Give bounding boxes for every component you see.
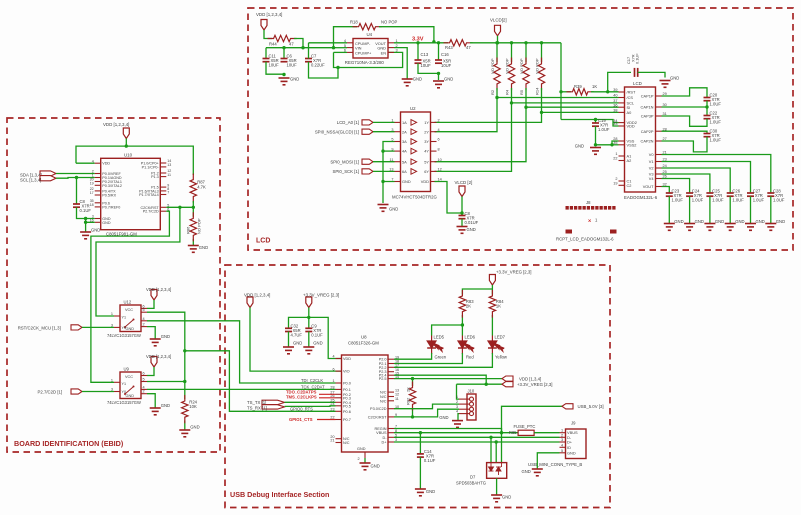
wire R84 to LED7	[491, 315, 493, 336]
capacitor C24	[686, 192, 693, 194]
D7 diode glyphs	[489, 463, 502, 475]
wire U9 output to USB P0.1	[147, 388, 336, 390]
capacitor C19	[592, 122, 599, 124]
U8 GND pin 2 to ground	[364, 452, 366, 458]
ground C26	[725, 224, 736, 231]
svg-text:1: 1	[561, 429, 563, 433]
input flag SPI0_MOSI	[362, 159, 373, 164]
power flag +3.3V_VREG (USB)	[306, 297, 312, 308]
svg-text:GND: GND	[444, 77, 453, 82]
wire rail to C6	[283, 48, 285, 59]
wire U2 unused inputs to ground	[383, 142, 395, 182]
TVS diode array D7 SPD503BAHTG	[487, 463, 507, 479]
svg-text:GND: GND	[371, 464, 380, 469]
input flag SPI0_SCK	[362, 169, 373, 174]
wire VBUS line	[394, 432, 518, 434]
svg-text:CPUMP+: CPUMP+	[355, 51, 372, 56]
svg-text:4A: 4A	[402, 149, 407, 154]
svg-text:N/C: N/C	[343, 441, 350, 445]
svg-text:GND: GND	[389, 207, 398, 212]
LCD module left pins	[619, 91, 625, 93]
svg-text:GND: GND	[674, 219, 683, 224]
svg-text:A0: A0	[627, 110, 633, 115]
svg-text:NO POP: NO POP	[504, 58, 509, 74]
connector J9 USB mini	[566, 429, 587, 459]
regulator U4 REG710NA	[353, 39, 388, 59]
wire CAP3P loop to C22 bottom	[662, 116, 708, 126]
svg-text:P0.1: P0.1	[343, 388, 351, 392]
svg-text:U8: U8	[361, 335, 367, 340]
svg-text:VLCD [2]: VLCD [2]	[455, 180, 473, 185]
svg-text:USB Debug Interface Section: USB Debug Interface Section	[230, 490, 329, 499]
USB MCU U8 C8051F326	[342, 355, 389, 452]
svg-text:NO POP: NO POP	[381, 20, 397, 25]
ground C24	[684, 224, 695, 231]
capacitor C20	[704, 97, 711, 99]
wire R24 to ground	[184, 421, 186, 430]
svg-text:3A: 3A	[402, 139, 407, 144]
junction C20/C22	[705, 105, 708, 108]
U10 left pins	[95, 162, 101, 164]
wire 3.3V rail down to /RST and VDD2	[560, 43, 562, 120]
U2 buffer triangles	[411, 120, 417, 126]
wire R44 to VIN rail	[294, 39, 303, 48]
svg-text:1.0UF: 1.0UF	[712, 198, 724, 203]
ground C23	[664, 224, 675, 231]
svg-text:1K: 1K	[592, 84, 597, 89]
svg-text:GND: GND	[190, 425, 199, 430]
resistor R14 (NO POP)	[538, 58, 544, 91]
svg-text:1.0UF: 1.0UF	[710, 120, 722, 125]
wire 3.3V to C16	[438, 43, 440, 60]
power net flag VDD [1,3,4]	[502, 376, 513, 381]
svg-text:CAP3P: CAP3P	[641, 114, 654, 119]
wire VDD to U12 VCC	[147, 300, 154, 308]
power flag VDD (U12)	[151, 290, 157, 301]
svg-text:R5: R5	[519, 89, 524, 95]
svg-text:2: 2	[143, 323, 145, 327]
svg-text:40: 40	[613, 94, 617, 98]
svg-text:10K: 10K	[189, 404, 197, 409]
svg-text:R44: R44	[269, 42, 277, 47]
wire 3.3V to C13	[417, 43, 419, 60]
USB section dashed border	[225, 265, 610, 508]
wire U12 pin2 to ground	[147, 327, 155, 339]
wire C28 to ground	[770, 196, 772, 223]
junction R18/3.3V	[432, 40, 435, 43]
svg-text:LED6: LED6	[465, 335, 476, 340]
svg-text:10UF: 10UF	[421, 63, 432, 68]
svg-text:3: 3	[456, 405, 458, 409]
wire EN to CPUMP+ loop under U4	[334, 52, 403, 67]
net flag USB_5.0V	[562, 404, 573, 409]
svg-text:6A: 6A	[402, 169, 407, 174]
svg-text:Yellow: Yellow	[495, 355, 508, 360]
svg-text:17: 17	[90, 191, 94, 195]
svg-text:6: 6	[344, 49, 346, 53]
wire R87 to RST net	[192, 201, 194, 217]
wire SCK to 6A	[373, 170, 395, 172]
U8 left pins	[336, 358, 342, 360]
svg-text:2: 2	[438, 119, 440, 123]
svg-text:3: 3	[396, 49, 398, 53]
svg-text:11: 11	[167, 173, 171, 177]
J9 pins	[560, 432, 566, 434]
svg-text:C2: C2	[627, 183, 632, 188]
svg-text:V0: V0	[649, 152, 655, 157]
wire U12 select pin to R24 net	[147, 312, 185, 399]
wire VBUS down to D7	[501, 433, 503, 463]
capacitor C30	[704, 133, 711, 135]
resistor R86 (NO POP)	[190, 212, 196, 241]
ground C32	[283, 347, 294, 354]
wire C17 to GND	[638, 72, 665, 77]
wire C14 to ground	[419, 457, 421, 488]
svg-text:VIO: VIO	[343, 370, 350, 374]
wire P3.0/C2D to J10 pin2	[394, 404, 459, 409]
svg-text:4: 4	[456, 410, 458, 414]
junction GND pin	[381, 180, 384, 183]
wire U4 GND pin down	[394, 48, 407, 79]
microcontroller U10 C8051F981-GM	[101, 158, 161, 229]
svg-text:1K: 1K	[496, 304, 501, 309]
svg-text:GND: GND	[695, 219, 704, 224]
svg-text:MC74VHCT504DTR2G: MC74VHCT504DTR2G	[392, 195, 438, 200]
wire C2CK/RST line to J10 pin3	[394, 409, 459, 417]
svg-text:6: 6	[143, 372, 145, 376]
svg-text:VDD [1,2,3,4]: VDD [1,2,3,4]	[146, 354, 171, 359]
junction 4A	[381, 149, 384, 152]
wire U10 GND pins to ground	[86, 219, 95, 223]
svg-text:+3.3V_VREG [2,3]: +3.3V_VREG [2,3]	[303, 293, 339, 298]
svg-text:P2.7/C2D: P2.7/C2D	[143, 210, 159, 214]
svg-text:1.0UF: 1.0UF	[732, 198, 744, 203]
svg-text:0.1UF: 0.1UF	[635, 53, 640, 64]
LCD module U3 EADOGM132L-6	[625, 87, 656, 192]
junction C7 loop/EN loop	[336, 66, 339, 69]
capacitor C23	[666, 192, 673, 194]
svg-text:6: 6	[438, 138, 440, 142]
svg-text:4: 4	[561, 443, 563, 447]
svg-text:/RST: /RST	[627, 90, 636, 95]
ground U12	[150, 339, 161, 346]
capacitor C6	[281, 58, 288, 60]
wire R39 to /RST pin	[591, 91, 619, 93]
svg-text:U2: U2	[410, 106, 416, 111]
wire P2.7 flag to Y0	[82, 391, 114, 393]
ground C11/C6	[279, 78, 290, 85]
wire rail to R14	[541, 43, 543, 62]
wire C19 bottom	[595, 126, 597, 145]
svg-text:1.0UF: 1.0UF	[710, 102, 722, 107]
U4 left pin stubs 4,5,6	[347, 42, 353, 44]
wire V3 to bottom capacitor	[662, 174, 710, 193]
svg-text:VDD: VDD	[421, 179, 429, 184]
power flag VLCD	[495, 25, 501, 36]
junction C6/rail	[282, 46, 285, 49]
wire LED6 to P2.1	[394, 353, 462, 364]
capacitor C16	[435, 59, 442, 61]
fuse F1 FUSE_PTC	[518, 430, 534, 435]
wire V4 to bottom capacitor	[662, 179, 690, 194]
svg-text:47: 47	[466, 45, 471, 50]
wire VLCD to rail	[497, 36, 499, 43]
buffer U2 MC74VHCT50A	[401, 112, 431, 192]
wire CPUMP- over to C7	[309, 42, 348, 44]
junction VDD rail	[125, 144, 128, 147]
junction C19	[594, 118, 597, 121]
wire CAP2N loop to C30 bottom	[662, 137, 708, 152]
U12 pins	[114, 315, 120, 317]
junction VBUS/fuse	[500, 431, 503, 434]
wire D+ line	[394, 441, 560, 443]
wire NSSA to 2A	[373, 131, 395, 133]
LED LED7	[488, 336, 504, 355]
svg-text:5: 5	[143, 378, 145, 382]
svg-text:Red: Red	[466, 355, 474, 360]
svg-text:33: 33	[613, 122, 617, 126]
svg-text:C16: C16	[441, 52, 449, 57]
wire SCL to P0.1	[56, 177, 95, 180]
svg-text:10UF: 10UF	[287, 63, 298, 68]
svg-text:1.0UF: 1.0UF	[710, 138, 722, 143]
wire rail to VIN	[336, 47, 347, 49]
svg-text:74LVC1G3157GW: 74LVC1G3157GW	[107, 333, 141, 338]
svg-text:GND: GND	[357, 447, 366, 451]
LED LED6	[458, 336, 474, 355]
wire J10 pin1 to +3.3V net	[457, 384, 460, 399]
capacitor C26	[727, 192, 734, 194]
svg-text:P1.1/CP0-: P1.1/CP0-	[142, 165, 160, 169]
wire +3.3V_VREG line	[457, 383, 503, 385]
wire D- down to D7	[490, 437, 492, 462]
wire CAP2P to C30	[662, 131, 708, 133]
svg-text:R39: R39	[574, 84, 582, 89]
svg-text:4: 4	[332, 355, 334, 359]
ground U8	[360, 463, 371, 470]
wire VDD rail over U10	[76, 146, 193, 175]
junction P2.4/+3.3V line	[485, 383, 488, 386]
junction EN loop/rail	[332, 46, 335, 49]
svg-text:1: 1	[456, 395, 458, 399]
svg-text:GND: GND	[313, 341, 322, 346]
svg-text:D+: D+	[567, 440, 573, 445]
svg-text:1.0UF: 1.0UF	[598, 127, 610, 132]
svg-text:19: 19	[613, 182, 617, 186]
wire C23 to ground	[668, 196, 670, 223]
svg-text:TMS_C2CLKPS: TMS_C2CLKPS	[286, 394, 317, 399]
wire REGIN line	[394, 429, 502, 433]
svg-text:R2: R2	[490, 89, 495, 95]
ground R86	[188, 246, 199, 253]
wire 4A	[383, 150, 395, 152]
svg-text:13: 13	[167, 163, 171, 167]
wire VDD to R44	[264, 30, 272, 39]
resistor R43	[444, 40, 473, 46]
wire SDA to P0.0	[56, 173, 95, 175]
svg-text:R82: R82	[405, 397, 410, 405]
wire +3.3V to C32	[289, 317, 309, 328]
resistor R24	[182, 395, 188, 423]
power flag +3.3V_VREG (LEDs)	[489, 275, 495, 286]
wire P2.7/C2D down to mux2 Y1	[91, 211, 169, 382]
junction +3.3V	[307, 316, 310, 319]
wire D7 to ground	[496, 478, 498, 494]
wire VLCD flag to C8cap	[461, 197, 463, 216]
wire J10 pin4 to ground	[458, 414, 459, 421]
svg-text:TS_RX [1]: TS_RX [1]	[247, 405, 267, 410]
wire to C19	[595, 120, 597, 124]
svg-text:LCD: LCD	[633, 81, 642, 86]
svg-text:1: 1	[615, 152, 617, 156]
wire U2 VDD pin to VLCD	[435, 182, 463, 214]
junction /RST pullup	[559, 90, 562, 93]
svg-text:35: 35	[613, 141, 617, 145]
wire bus /CS	[497, 97, 619, 99]
svg-text:0.01UF: 0.01UF	[465, 220, 479, 225]
wire VIN rail to R18 loop	[334, 27, 358, 48]
svg-text:×: ×	[588, 219, 591, 225]
svg-text:CAP2N: CAP2N	[641, 139, 654, 144]
junction GND pins	[84, 217, 87, 220]
resistor R87	[190, 174, 196, 203]
svg-text:P2.2: P2.2	[379, 366, 387, 370]
wire U12 output to USB P0.0	[147, 321, 336, 383]
wire rail to R2	[496, 43, 498, 62]
wire C7 bottom loop	[309, 62, 339, 78]
power flag VDD (USB)	[247, 297, 253, 308]
svg-text:1: 1	[111, 312, 113, 316]
svg-text:GND: GND	[126, 327, 135, 331]
junction VSS2	[610, 143, 613, 146]
svg-text:GND: GND	[402, 179, 411, 184]
svg-text:VOUT: VOUT	[643, 184, 654, 189]
svg-text:2K: 2K	[405, 387, 410, 392]
svg-text:P3.0/C2D: P3.0/C2D	[370, 407, 387, 411]
capacitor C11	[263, 58, 270, 60]
svg-text:4.7K: 4.7K	[197, 185, 206, 190]
wire A0 bus down to U2 1Y	[435, 112, 542, 122]
wire 3.3V rail right to resistor bank	[470, 42, 561, 44]
svg-text:USB_5.0V [3]: USB_5.0V [3]	[578, 404, 604, 409]
wire C8 decoupling tap	[76, 178, 78, 205]
svg-text:P0.5/RX: P0.5/RX	[102, 194, 116, 198]
junction /RST/C17	[606, 90, 609, 93]
svg-text:VCC: VCC	[125, 308, 133, 312]
input flag P2.7/C2D	[71, 389, 82, 394]
svg-text:SPD503BAHTG: SPD503BAHTG	[456, 481, 486, 486]
junction VSS/C19	[594, 143, 597, 146]
svg-text:0.1UF: 0.1UF	[80, 208, 92, 213]
wire to U10 VDD pin	[76, 162, 95, 164]
svg-text:Green: Green	[435, 355, 447, 360]
svg-text:38: 38	[613, 109, 617, 113]
capacitor C17	[634, 68, 636, 77]
ground C19/VSS	[590, 148, 601, 155]
wire to LED5	[432, 325, 463, 336]
svg-text:U4: U4	[367, 32, 373, 37]
svg-text:GND: GND	[290, 77, 299, 82]
svg-text:1.0UF: 1.0UF	[672, 198, 684, 203]
wire VDD2 rail	[561, 120, 619, 127]
svg-text:Y0: Y0	[122, 390, 127, 394]
wire LCD_A0 to 1A	[373, 121, 395, 123]
svg-text:GPIO0_RTS: GPIO0_RTS	[290, 406, 313, 411]
ground J10	[452, 421, 463, 428]
svg-text:1: 1	[332, 379, 334, 383]
wire C27 to ground	[750, 196, 752, 223]
wire TS_TX to P0.4	[285, 401, 336, 403]
wire U9 pin2 to ground	[147, 394, 155, 408]
EBID section dashed border	[7, 118, 220, 452]
svg-text:3: 3	[561, 438, 563, 442]
svg-text:ID: ID	[567, 445, 571, 450]
input flag TS_TX	[262, 400, 285, 404]
svg-text:0.22UF: 0.22UF	[311, 63, 325, 68]
wire VSS VSS2 to ground	[596, 141, 619, 145]
svg-text:5A: 5A	[402, 159, 407, 164]
svg-text:U9: U9	[124, 367, 130, 372]
wire V2 to bottom capacitor	[662, 168, 731, 193]
wire C32 to ground	[288, 332, 290, 347]
svg-text:GND: GND	[735, 219, 744, 224]
wire R4 to SCL bus	[511, 88, 513, 103]
capacitor C27	[747, 192, 754, 194]
svg-text:22: 22	[613, 157, 617, 161]
svg-text:2A: 2A	[402, 129, 407, 134]
svg-text:SPI0_MOSI [1]: SPI0_MOSI [1]	[330, 160, 359, 165]
svg-text:R4: R4	[504, 89, 509, 95]
junction C8/P0.1	[75, 176, 78, 179]
svg-text:13: 13	[395, 388, 399, 392]
svg-text:VSS2: VSS2	[627, 142, 637, 147]
U9 pins	[114, 381, 120, 383]
svg-text:BOARD IDENTIFICATION (EBID): BOARD IDENTIFICATION (EBID)	[14, 439, 124, 448]
svg-text:C8051F326-GM: C8051F326-GM	[348, 341, 379, 346]
ground U9	[150, 408, 161, 415]
svg-text:VDD [1,2,3,4]: VDD [1,2,3,4]	[103, 122, 129, 127]
wire R83 to LED5/LED6	[461, 315, 463, 336]
ground C9	[303, 347, 314, 354]
junction C14 tap	[419, 431, 422, 434]
svg-text:P0.0: P0.0	[343, 382, 351, 386]
svg-text:SPI0_NSSA(GLCD) [1]: SPI0_NSSA(GLCD) [1]	[315, 130, 359, 135]
svg-text:P0.7: P0.7	[343, 418, 351, 422]
svg-text:74LVC1G3157GW: 74LVC1G3157GW	[107, 400, 141, 405]
wire P2.4 to +3.3V_VREG flag	[394, 375, 486, 384]
svg-text:RCPT_LCD_EADOGM132L-6: RCPT_LCD_EADOGM132L-6	[556, 237, 614, 242]
svg-text:GND: GND	[426, 489, 435, 494]
wire VDD to U9 VCC	[147, 367, 154, 376]
svg-text:EADOGM132L-6: EADOGM132L-6	[624, 195, 658, 200]
wire P2.5 to VDD flag	[394, 378, 502, 380]
svg-text:C13: C13	[421, 52, 429, 57]
capacitor C22	[704, 115, 711, 117]
svg-text:1A: 1A	[402, 120, 407, 125]
svg-text:GND: GND	[502, 495, 511, 500]
resistor R44	[268, 35, 297, 41]
svg-text:P0.5: P0.5	[343, 404, 351, 408]
svg-text:1Y: 1Y	[424, 120, 429, 125]
svg-text:2: 2	[358, 457, 360, 461]
wire SCL bus down to U2 6Y	[435, 103, 512, 171]
wire R82 bottom	[412, 408, 414, 417]
svg-text:GND: GND	[522, 469, 531, 474]
svg-text:TDI_C2CLK: TDI_C2CLK	[301, 378, 323, 383]
svg-text:0.1UF: 0.1UF	[424, 458, 436, 463]
svg-text:39: 39	[613, 88, 617, 92]
capacitor C8 (EBID)	[73, 203, 80, 205]
